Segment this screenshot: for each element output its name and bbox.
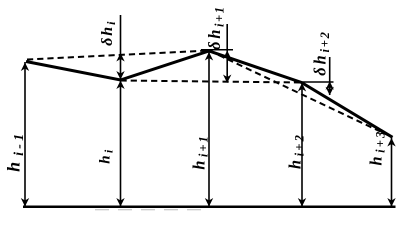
svg-text:δhi: δhi: [99, 19, 118, 45]
svg-text:hi+1: hi+1: [190, 134, 211, 169]
svg-text:δhi+1: δhi+1: [205, 5, 226, 49]
svg-text:hi-1: hi-1: [3, 131, 27, 172]
svg-text:hi+3: hi+3: [366, 129, 387, 165]
svg-text:δhi+2: δhi+2: [311, 30, 332, 75]
svg-text:hi+2: hi+2: [286, 133, 307, 169]
svg-text:hi: hi: [97, 147, 115, 164]
